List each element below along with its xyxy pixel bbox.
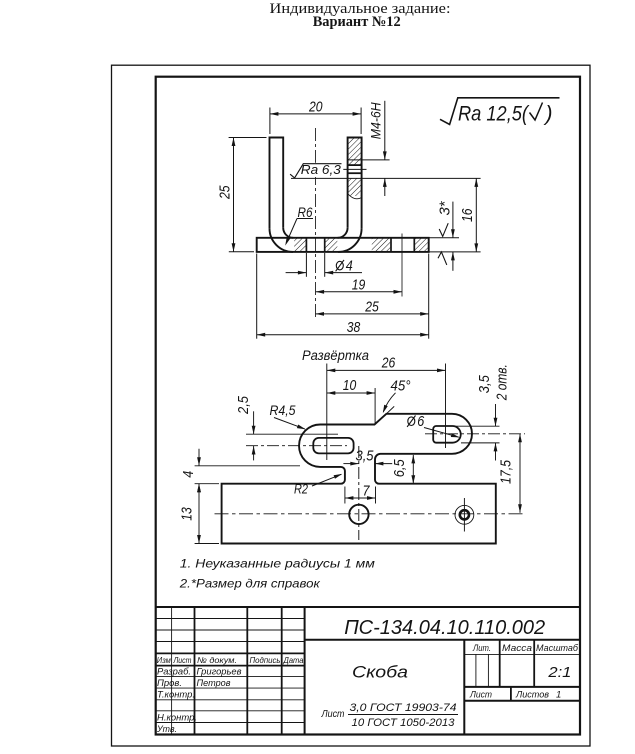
second hole edges in base [390, 238, 392, 252]
title block top border [156, 606, 580, 608]
arrows 25 bottom [316, 312, 325, 316]
svg-text:2:1: 2:1 [547, 664, 571, 681]
slot centre / 26 extension left [326, 364, 328, 461]
dim 3,5 2otv extension lines [455, 425, 500, 427]
dim 26 line [327, 369, 446, 371]
left bend outer arc [270, 228, 294, 252]
local section wavy boundary [348, 194, 362, 199]
svg-text:6: 6 [417, 413, 425, 430]
right bend inner arc [338, 228, 348, 238]
dim 2,5 stems [253, 411, 255, 434]
hatch right wall upper [348, 138, 362, 165]
svg-text:№ докум.: № докум. [197, 655, 237, 665]
arrow R2 [334, 472, 343, 479]
svg-text:45°: 45° [391, 377, 411, 394]
svg-text:2,5: 2,5 [235, 395, 252, 414]
svg-text:Ra 12,5(: Ra 12,5( [458, 103, 530, 126]
arrows 26 [327, 369, 336, 373]
dim Ф4 arrow lines [286, 272, 307, 274]
svg-text:25: 25 [364, 298, 379, 315]
reference line Ra6,3 / 16 dim [291, 177, 481, 179]
inner drawing frame [156, 77, 580, 735]
svg-text:Лист: Лист [173, 655, 192, 665]
hole2 vertical centre [463, 498, 465, 532]
dim Ф4 extension lines [305, 253, 307, 277]
dim 17,5 line [519, 434, 521, 513]
arrows 17,5 [518, 434, 522, 443]
svg-text:Масштаб: Масштаб [536, 643, 579, 653]
svg-text:M4-6H: M4-6H [367, 102, 383, 140]
dim 25 left line [233, 138, 235, 252]
svg-text:13: 13 [179, 507, 196, 521]
dim 7 extension lines [344, 487, 346, 504]
list listov divider [510, 687, 512, 701]
arrows 7 [345, 496, 354, 500]
countersunk hole inner [460, 510, 469, 519]
list row top [464, 686, 580, 688]
extension base left edge [256, 254, 258, 339]
arrows 38 [257, 333, 266, 337]
dim 38 line [257, 334, 429, 336]
svg-text:Скоба: Скоба [352, 664, 408, 682]
svg-text:Лист: Лист [469, 690, 492, 701]
svg-text:Вариант №12: Вариант №12 [313, 14, 401, 30]
svg-text:38: 38 [347, 319, 361, 336]
left table verticals [171, 607, 173, 735]
arrow R4,5 [297, 425, 306, 432]
hatch right wall lower [348, 178, 362, 196]
svg-text:R4,5: R4,5 [270, 403, 296, 418]
arrows 3,5 neck [350, 462, 359, 466]
arrows 6,5 [411, 455, 415, 464]
svg-text:Разраб.: Разраб. [157, 666, 191, 677]
svg-text:2.*Размер для справок: 2.*Размер для справок [179, 576, 322, 590]
centre line of U [315, 128, 317, 318]
svg-text:Изм: Изм [157, 655, 171, 665]
name cell divider [463, 640, 465, 735]
surface mark upper [439, 223, 448, 236]
svg-text:Петров: Петров [197, 678, 231, 689]
dim 19 line [316, 291, 402, 293]
Ra 6,3 text mask [299, 163, 343, 177]
arrows 19 [316, 290, 325, 294]
arrow Ф6 [451, 433, 460, 439]
arrows Ф4 [298, 271, 307, 275]
arrows 20 [270, 112, 279, 116]
svg-text:R6: R6 [298, 204, 313, 220]
45 leader arc [383, 393, 395, 412]
M4 thread bore thick lines [348, 164, 362, 166]
centre line of second hole [401, 234, 403, 297]
arrows 25 left [232, 138, 236, 147]
flat pattern outline [222, 414, 496, 544]
arrows 13 [197, 484, 201, 493]
left wall of U [270, 138, 284, 229]
arrow 45 [381, 405, 388, 414]
dim 6,5 line [412, 455, 414, 484]
left rows [156, 676, 305, 678]
base bottom extension right [429, 251, 481, 253]
svg-text:Подпись: Подпись [250, 655, 281, 665]
left header row bottom [156, 665, 305, 667]
right wall of U [348, 138, 362, 229]
dim 3,5 2otv stems [495, 404, 497, 426]
svg-text:7: 7 [363, 483, 371, 500]
dim 3,5 neck arrow lines [343, 463, 358, 465]
hatch base patch 2 [325, 238, 338, 252]
M4 hole axis line [343, 168, 366, 170]
svg-text:Лист: Лист [321, 708, 345, 720]
left slot [313, 438, 353, 454]
dim 20 extension lines [269, 108, 271, 135]
M4 thread major thin line [348, 159, 390, 161]
arrows 3,5 2otv [494, 418, 498, 427]
10 extension at slant corner [374, 388, 376, 423]
svg-text:Масса: Масса [502, 643, 532, 653]
arrows 4 [197, 457, 201, 466]
base rect centre line [215, 513, 526, 515]
svg-text:Пров.: Пров. [157, 678, 182, 689]
svg-text:3,5: 3,5 [356, 448, 375, 465]
list row bottom [464, 700, 580, 702]
45 slant extension [386, 406, 394, 413]
svg-text:19: 19 [352, 276, 366, 293]
Ф6 leader [424, 428, 459, 438]
R4,5 leader [274, 418, 305, 430]
svg-text:3,5: 3,5 [476, 375, 493, 394]
svg-text:26: 26 [381, 354, 396, 371]
arrows M4-6H [383, 151, 387, 160]
svg-text:3*: 3* [436, 200, 453, 215]
left bend inner arc [283, 228, 293, 238]
svg-text:ПС-134.04.10.110.002: ПС-134.04.10.110.002 [344, 617, 545, 639]
centre line left portion [246, 445, 347, 447]
svg-text:2 отв.: 2 отв. [494, 364, 511, 401]
arrows 10 [327, 391, 336, 395]
svg-text:Утв.: Утв. [156, 724, 177, 735]
right bend outer arc [338, 228, 362, 252]
svg-text:Дата: Дата [283, 655, 304, 665]
dim 4/13 line [198, 449, 200, 466]
dim 25 bottom line [316, 313, 429, 315]
text Ф4 [336, 260, 344, 271]
text Ф6 [407, 416, 415, 427]
dim 3* stems [452, 202, 454, 238]
dim 7 line [345, 497, 376, 499]
svg-text:16: 16 [459, 208, 476, 222]
R2 leader [312, 474, 341, 486]
dim 4 extension lines [195, 465, 300, 467]
dim 16 line [475, 178, 477, 252]
arrows 2,5 [252, 426, 256, 435]
extension base right edge [428, 254, 430, 339]
centre line right portion extended left [246, 433, 338, 435]
hole in base rect [349, 505, 368, 524]
svg-text:Ra 6,3: Ra 6,3 [301, 162, 342, 177]
neck centre line [358, 446, 360, 540]
R6 leader [286, 219, 313, 244]
svg-text:25: 25 [217, 185, 234, 200]
svg-text:10 ГОСТ 1050-2013: 10 ГОСТ 1050-2013 [352, 717, 456, 729]
masa masshtab boundary [533, 640, 535, 687]
svg-text:R2: R2 [294, 480, 308, 496]
right slot [433, 426, 461, 443]
svg-text:20: 20 [308, 98, 323, 115]
dim 25 left extension lines [229, 137, 267, 139]
lit masa boundary [499, 640, 501, 687]
hole Ф4 edges in base [305, 238, 307, 252]
surface mark lower [438, 252, 447, 265]
dim M4-6H arrow stems [384, 101, 386, 160]
dim 10 line [327, 392, 375, 394]
svg-text:4: 4 [180, 471, 197, 478]
lit masa masshtab header bottom [464, 653, 580, 655]
hatch base patch 1 [294, 238, 306, 252]
dim 13 bottom extension [195, 543, 219, 545]
svg-text:10: 10 [343, 377, 357, 394]
arrows 16 [474, 178, 478, 187]
svg-text:Листов: Листов [515, 690, 549, 701]
designation cell bottom [305, 639, 580, 641]
left table reserve rows [156, 618, 305, 620]
Ra 6,3 tick symbol [290, 164, 341, 178]
section view: base plate outline [257, 238, 429, 252]
hatch base patch 4 [415, 238, 429, 252]
svg-text:Т.контр.: Т.контр. [157, 689, 195, 700]
svg-text:Лит.: Лит. [472, 643, 491, 653]
hatch base patch 3 [372, 238, 390, 252]
base top extension right [429, 237, 459, 239]
dim 20 line [270, 113, 361, 115]
svg-text:4: 4 [346, 258, 353, 275]
svg-text:17,5: 17,5 [498, 459, 515, 484]
countersunk hole outer [455, 505, 474, 524]
roughness Ra 12,5 main symbol [440, 98, 560, 125]
svg-text:Н.контр.: Н.контр. [157, 712, 197, 723]
svg-text:3,0 ГОСТ 19903-74: 3,0 ГОСТ 19903-74 [350, 702, 457, 714]
svg-text:Развёртка: Развёртка [302, 348, 369, 363]
svg-text:6,5: 6,5 [391, 459, 408, 478]
svg-text:1. Неуказанные радиусы 1 мм: 1. Неуказанные радиусы 1 мм [180, 556, 375, 570]
centre line right portion [425, 433, 525, 435]
arrows 3* [451, 229, 455, 238]
outer sheet frame [112, 65, 591, 746]
svg-text:Григорьев: Григорьев [197, 666, 242, 677]
lit subcolumn verticals [475, 654, 477, 687]
left header row top [156, 652, 305, 654]
slot centre / 26 extension right [445, 364, 447, 449]
svg-text:1: 1 [556, 690, 561, 701]
